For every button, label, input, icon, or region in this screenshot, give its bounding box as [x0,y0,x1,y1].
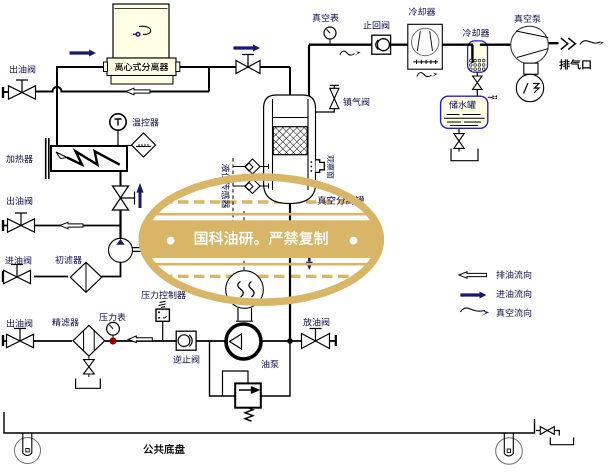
sight port on tank right [316,160,325,173]
cooler (冷却器) fan box [408,24,443,69]
label 逆止阀 [173,355,199,363]
chassis right drain valve [536,427,574,445]
wire: top outlet valve left stub and cap [4,91,9,93]
label 出油阀 [10,65,35,73]
label 排气口 [559,59,590,69]
vent flag on water tank [488,96,493,98]
label 初滤器 [55,256,81,264]
wire: tank inlet drop x290 [289,67,291,97]
legend wavy 真空流向 [460,308,485,312]
wire: branch down x209 to return line [208,67,210,92]
relief spring [245,408,253,422]
valve: separator outlet valve [236,61,260,74]
label 精滤器 [52,318,78,326]
heating element zigzag [67,151,120,164]
wire: riser x57 separator to heater [56,66,58,146]
vacuum gauge (真空表) [324,27,336,44]
nozzle diamond 1 [245,159,260,174]
wire: vacuum drop into tank x309 [308,45,310,100]
label 压力表 [99,313,125,321]
wire: valve to circ pump x119 [119,210,121,239]
pressure gauge (压力表) [107,322,120,338]
blue up arrow at heater valve [139,192,142,208]
label 公共底盘 [144,444,185,454]
wire: bottom main line y341 [4,340,226,342]
right caster wheel [496,433,523,464]
label 镇气阀 [343,98,369,106]
watermark ellipse 国科油研 [135,177,390,302]
thermostat sensor diamond [127,133,156,157]
label 真空流向 [497,308,532,316]
junction dot pump outlet [287,338,293,344]
open arrow on middle outlet line [60,222,83,229]
label 真空表 [313,14,339,22]
mesh block [273,127,307,155]
check valve (止回阀) top [372,35,391,54]
wire: heater outlet down x119 [120,171,122,186]
label 油泵 [261,360,278,368]
valve: drain valve (放油阀) [302,334,330,349]
vacuum pump (真空泵) [511,26,549,102]
label 真空分离罐 [318,196,365,205]
label 加热器 [6,155,32,163]
exhaust wavy [580,41,601,45]
swirl mark inside motor [139,26,151,34]
wavy mark under cooler [417,73,432,77]
vertical label 液位传感器 [222,164,230,208]
pressure controller (压力控制器) [156,301,169,340]
left caster wheel [15,433,41,464]
valve between cooler and water tank [473,76,482,89]
relief valve box [235,383,261,421]
镇气阀 valve [330,85,339,108]
motor housing of separator [113,4,169,58]
fine filter (精滤器) [73,325,105,388]
water storage tank (储水罐) [441,95,498,128]
valve below heater with stem [113,186,135,210]
common chassis (公共底盘) line [4,412,535,433]
wire: water tank drain [458,128,460,151]
legend open arrow 排油流向 [459,272,487,279]
label 冷却器 [409,7,435,15]
valve: outlet valve top (出油阀) [9,86,36,99]
valve: outlet valve middle (出油阀) [8,219,35,232]
wire: separator top line y67 [57,66,290,68]
wire: relief pilot rectangle [223,371,249,396]
open arrow on return line [126,88,150,95]
wire: circ pump to filter line [4,262,121,277]
wire: vacuum top line y44.7 [309,43,559,45]
label 真空泵 [515,14,541,22]
centrifugal separator body (离心式分离器) [104,58,180,84]
red junction dot [109,337,116,344]
pump to motor neck [524,63,538,74]
circulation pump under heater [109,238,143,262]
water tank drain valve [454,134,464,149]
pump motor circle with SS [226,271,264,322]
valve: outlet valve bottom (出油阀) [7,334,34,347]
label 出油阀 [7,319,32,327]
label 储水罐 [449,100,475,108]
heater (加热器) [46,138,127,179]
label 冷却器 [463,29,489,37]
label 放油阀 [303,318,329,326]
wire: small cooler to water tank [476,72,478,97]
wire: return line y91.5 with hop over x57 [36,87,210,92]
wire: tank to 镇气阀 [316,109,334,112]
tank inner vessel [273,99,309,190]
label 离心式分离器 [115,63,168,71]
vertical label 观察窗 [327,155,334,178]
vacuum separation tank shell [264,95,316,204]
wire: middle outlet line y225.5 [4,225,121,227]
flow arrow after separator [234,45,261,52]
exhaust chevrons [561,38,576,49]
label 进油流向 [496,290,531,298]
wire: tank bottom drop x290 [289,203,291,341]
level sensor dashed line and nozzles [232,158,234,222]
label 压力控制器 [141,291,185,299]
wavy vacuum mark after gauge [340,51,355,55]
open arrow on bottom line [128,336,152,343]
temperature controller (温控器) circle T [110,114,126,146]
primary filter (初滤器) diamond [70,262,101,292]
vacuum pump motor circle [516,74,543,101]
flow arrow into separator [70,50,97,57]
label 止回阀 [363,21,389,29]
nozzle diamond 2 [245,179,260,194]
drip tray under water tank [451,149,478,161]
wire: pump outlet to drain valve [262,340,336,342]
label 离心式分离器 [115,63,168,71]
wire: relief loop [210,341,291,396]
label 温控器 [132,118,158,126]
oil pump (油泵) [226,324,261,359]
small cooler (冷却器) blue [468,41,488,72]
legend navy arrow 进油流向 [460,292,486,299]
label 出油阀 [7,197,32,205]
label 进油阀 [5,256,31,264]
valve: inlet valve (进油阀) [4,270,31,283]
label 排油流向 [496,270,531,278]
blue down arrow on tank drop [308,254,311,262]
check valve (逆止阀) box [176,331,196,350]
